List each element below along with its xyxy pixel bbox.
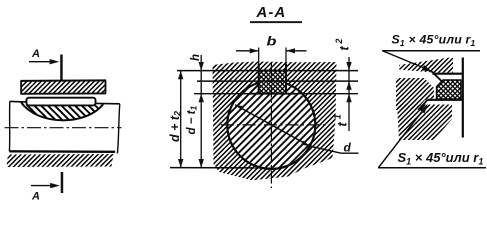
left view: hub lower strip hatched xyxy=(7,154,114,167)
detail view: keyway top line xyxy=(433,73,464,75)
dimension d+t2 xyxy=(168,71,184,168)
svg-text:h: h xyxy=(190,54,202,61)
svg-text:A: A xyxy=(31,191,40,202)
svg-text:A-A: A-A xyxy=(256,5,287,21)
section view: centerline vertical xyxy=(270,63,272,188)
detail view: note top S1x45 or r1 xyxy=(382,32,480,50)
svg-text:b: b xyxy=(267,35,277,49)
svg-text:1: 1 xyxy=(333,114,343,119)
left view: key seat crescent hatched xyxy=(21,102,103,120)
svg-text:d: d xyxy=(344,140,352,154)
section view: centerline horizontal xyxy=(221,124,327,126)
detail view: key seat bottom line xyxy=(428,99,463,101)
detail view: bottom chamfer xyxy=(418,100,427,110)
left view: section label A bottom xyxy=(31,172,63,203)
left view: shaft surface line left xyxy=(10,100,27,103)
left view: section label A top xyxy=(29,48,63,80)
section view: bore top tangent line xyxy=(197,80,358,82)
section view: key in keyway cross-hatched xyxy=(259,64,286,94)
dimension t1 xyxy=(333,94,352,127)
detail view: top chamfer xyxy=(432,71,443,81)
dimension d leader xyxy=(235,105,359,155)
svg-text:2: 2 xyxy=(334,39,344,45)
svg-text:S1 × 45°или r1: S1 × 45°или r1 xyxy=(398,150,484,167)
detail view: leader top xyxy=(383,51,432,72)
section view: shaft circle d xyxy=(227,81,315,169)
left view: hub upper strip hatched xyxy=(21,80,107,93)
svg-text:t: t xyxy=(336,46,351,51)
svg-text:d + t2: d + t2 xyxy=(168,111,183,142)
left view: shaft centerline xyxy=(5,127,122,129)
left view: key seat arc xyxy=(21,102,103,120)
section view: circle bottom extension line xyxy=(170,167,272,169)
left view: shaft body outline xyxy=(9,101,119,153)
detail view: keyway wall vertical line xyxy=(462,58,464,138)
svg-text:A: A xyxy=(31,48,40,60)
detail view: leader bottom xyxy=(379,104,428,168)
dimension h xyxy=(190,54,204,168)
svg-text:t: t xyxy=(335,122,350,127)
dimension b xyxy=(236,35,307,66)
section view: title A-A xyxy=(250,5,302,23)
detail view: hub hatch wedge xyxy=(399,58,453,73)
section view: hub hatched block xyxy=(213,62,337,181)
svg-text:d − t1: d − t1 xyxy=(186,106,199,135)
detail view: shaft hatch region xyxy=(396,78,452,140)
section view: keyway top line xyxy=(177,70,358,72)
left view: shaft surface line right xyxy=(96,102,120,104)
svg-text:S1 × 45°или r1: S1 × 45°или r1 xyxy=(392,32,476,48)
dimension d-t1 xyxy=(186,106,204,168)
detail view: note bottom S1x45 or r1 xyxy=(378,150,486,168)
left view: key (segment key) top rectangle xyxy=(27,98,96,106)
dimension t2 xyxy=(334,39,352,131)
section view: key seat bottom line xyxy=(194,93,358,95)
detail view: key corner cross-hatched xyxy=(437,80,461,99)
